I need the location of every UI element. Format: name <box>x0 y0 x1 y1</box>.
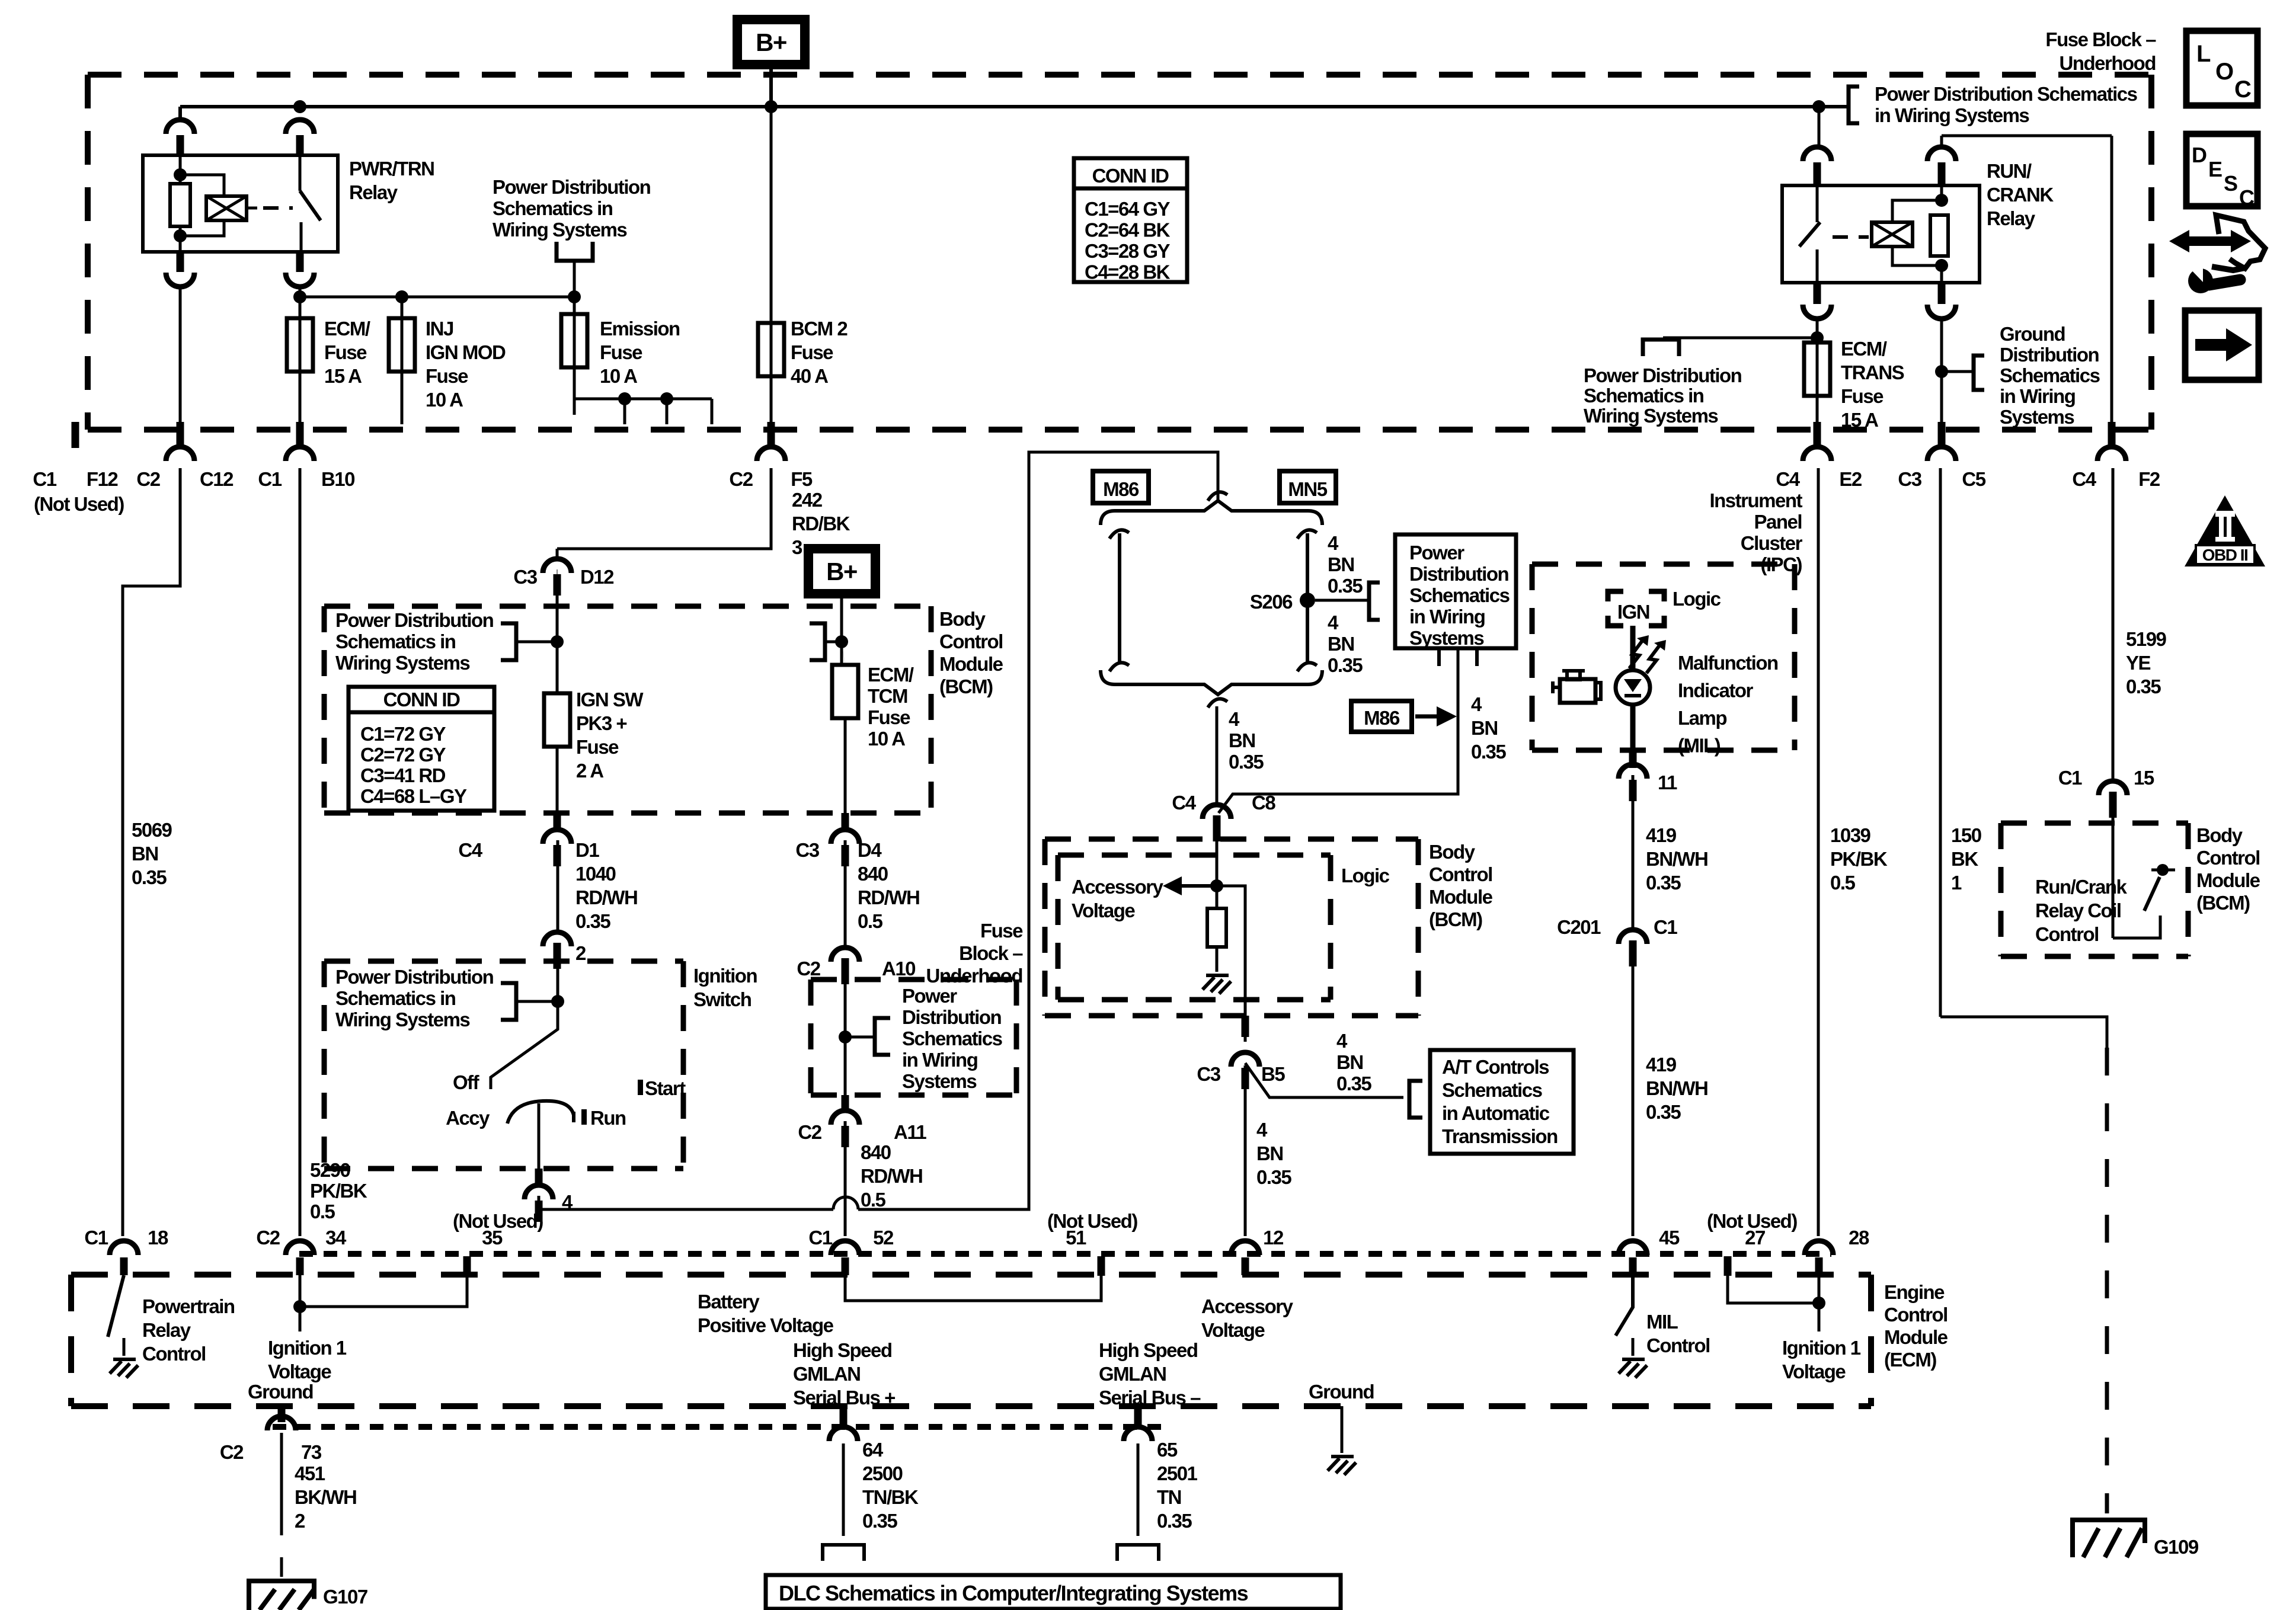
svg-text:C1: C1 <box>258 468 282 490</box>
svg-text:Power Distribution: Power Distribution <box>493 176 651 198</box>
svg-text:IGN MOD: IGN MOD <box>426 341 506 363</box>
svg-text:B+: B+ <box>826 558 857 585</box>
svg-text:Fuse: Fuse <box>576 736 619 758</box>
svg-text:Control: Control <box>939 630 1003 652</box>
svg-text:1040: 1040 <box>575 863 616 885</box>
svg-text:Relay: Relay <box>142 1319 191 1341</box>
svg-text:Relay Coil: Relay Coil <box>2035 900 2121 921</box>
svg-text:Underhood: Underhood <box>926 965 1022 987</box>
svg-text:2 A: 2 A <box>576 760 603 782</box>
svg-text:242: 242 <box>792 489 823 511</box>
svg-text:(MIL): (MIL) <box>1678 735 1721 757</box>
svg-text:Instrument: Instrument <box>1709 489 1802 511</box>
svg-text:S: S <box>2224 171 2237 196</box>
svg-text:M86: M86 <box>1103 478 1139 500</box>
svg-text:F2: F2 <box>2138 468 2160 490</box>
svg-text:Voltage: Voltage <box>1201 1319 1265 1341</box>
svg-text:Wiring Systems: Wiring Systems <box>1584 405 1718 427</box>
svg-text:Schematics: Schematics <box>902 1028 1002 1049</box>
svg-text:C4: C4 <box>2072 468 2096 490</box>
svg-text:4: 4 <box>1328 532 1339 554</box>
svg-text:0.35: 0.35 <box>1256 1166 1291 1188</box>
svg-text:(BCM): (BCM) <box>2196 892 2250 914</box>
svg-text:C2=64 BK: C2=64 BK <box>1085 219 1171 241</box>
svg-text:Block –: Block – <box>959 942 1023 964</box>
svg-text:Module: Module <box>2196 869 2260 891</box>
svg-text:C4: C4 <box>458 839 482 861</box>
svg-text:0.5: 0.5 <box>858 910 883 932</box>
svg-text:2: 2 <box>295 1510 305 1532</box>
svg-text:Panel: Panel <box>1754 511 1802 533</box>
svg-text:E2: E2 <box>1839 468 1862 490</box>
svg-text:Control: Control <box>2035 923 2099 945</box>
svg-text:2500: 2500 <box>862 1462 903 1484</box>
svg-text:15 A: 15 A <box>1841 409 1878 431</box>
svg-text:Control: Control <box>2196 847 2260 869</box>
svg-text:Body: Body <box>1429 841 1476 863</box>
svg-text:3: 3 <box>792 536 802 558</box>
svg-text:Run: Run <box>590 1107 626 1129</box>
svg-text:(Not Used): (Not Used) <box>34 493 124 515</box>
svg-text:Ground: Ground <box>248 1381 313 1403</box>
svg-text:4: 4 <box>1256 1119 1268 1141</box>
svg-text:Voltage: Voltage <box>1782 1361 1846 1382</box>
svg-text:BN/WH: BN/WH <box>1646 1077 1707 1099</box>
svg-text:C2: C2 <box>729 468 753 490</box>
svg-text:10 A: 10 A <box>600 365 637 387</box>
svg-text:C2: C2 <box>798 1121 821 1143</box>
svg-text:Battery: Battery <box>698 1291 760 1313</box>
svg-text:10 A: 10 A <box>868 728 905 750</box>
svg-text:Malfunction: Malfunction <box>1678 652 1778 674</box>
svg-text:Positive Voltage: Positive Voltage <box>698 1314 834 1336</box>
svg-text:Serial Bus –: Serial Bus – <box>1099 1387 1201 1409</box>
svg-text:Ground: Ground <box>2000 323 2065 345</box>
svg-text:Ignition 1: Ignition 1 <box>268 1337 347 1359</box>
svg-text:BN: BN <box>1328 633 1354 655</box>
svg-text:B5: B5 <box>1261 1063 1285 1085</box>
svg-text:M86: M86 <box>1364 707 1400 729</box>
svg-text:Schematics in: Schematics in <box>335 987 456 1009</box>
svg-text:C1: C1 <box>33 468 56 490</box>
svg-text:Ignition 1: Ignition 1 <box>1782 1337 1861 1359</box>
svg-text:Transmission: Transmission <box>1442 1125 1558 1147</box>
svg-text:(Not Used): (Not Used) <box>1047 1210 1137 1232</box>
svg-text:High Speed: High Speed <box>1099 1339 1198 1361</box>
svg-text:C1: C1 <box>1654 916 1677 938</box>
svg-text:Control: Control <box>1646 1334 1710 1356</box>
svg-text:CONN ID: CONN ID <box>383 689 461 710</box>
svg-text:2501: 2501 <box>1157 1462 1198 1484</box>
svg-text:Schematics in: Schematics in <box>493 197 613 219</box>
svg-text:Ignition: Ignition <box>693 965 757 987</box>
svg-text:in Wiring: in Wiring <box>2000 385 2075 407</box>
svg-text:Control: Control <box>1429 863 1492 885</box>
svg-text:Cluster: Cluster <box>1741 532 1803 554</box>
svg-text:0.35: 0.35 <box>132 866 167 888</box>
svg-text:0.35: 0.35 <box>1157 1510 1192 1532</box>
svg-text:Fuse: Fuse <box>426 365 468 387</box>
svg-text:0.35: 0.35 <box>1471 741 1506 763</box>
svg-text:Fuse: Fuse <box>1841 385 1884 407</box>
svg-text:BN: BN <box>1471 717 1498 739</box>
svg-text:0.35: 0.35 <box>1328 575 1363 597</box>
svg-text:0.35: 0.35 <box>1328 654 1363 676</box>
svg-text:4: 4 <box>1471 693 1482 715</box>
svg-text:5069: 5069 <box>132 819 172 841</box>
svg-text:C2: C2 <box>797 958 820 980</box>
svg-text:Logic: Logic <box>1341 865 1390 886</box>
svg-text:BN: BN <box>1256 1142 1283 1164</box>
svg-text:(BCM): (BCM) <box>939 676 993 697</box>
svg-text:Schematics in: Schematics in <box>1584 385 1704 406</box>
svg-text:F5: F5 <box>791 468 813 490</box>
svg-text:in Wiring Systems: in Wiring Systems <box>1875 104 2029 126</box>
svg-text:D: D <box>2192 143 2207 167</box>
svg-text:4: 4 <box>1336 1030 1348 1052</box>
svg-text:Fuse Block –: Fuse Block – <box>2045 28 2156 50</box>
svg-text:Relay: Relay <box>1987 207 2036 229</box>
svg-text:Body: Body <box>2196 824 2243 846</box>
svg-text:Logic: Logic <box>1673 588 1721 610</box>
svg-text:Control: Control <box>142 1343 206 1365</box>
svg-text:Powertrain: Powertrain <box>142 1295 235 1317</box>
svg-text:C4=68 L–GY: C4=68 L–GY <box>360 785 467 807</box>
svg-text:1039: 1039 <box>1830 824 1871 846</box>
svg-text:Wiring Systems: Wiring Systems <box>335 1009 469 1030</box>
svg-text:150: 150 <box>1951 824 1981 846</box>
svg-text:Module: Module <box>1884 1326 1948 1348</box>
svg-text:F12: F12 <box>87 468 119 490</box>
svg-text:12: 12 <box>1263 1227 1284 1249</box>
svg-text:73: 73 <box>301 1441 322 1463</box>
svg-text:Schematics: Schematics <box>1442 1079 1542 1101</box>
svg-text:C1: C1 <box>808 1227 832 1249</box>
svg-text:BN/WH: BN/WH <box>1646 848 1707 870</box>
svg-text:Schematics: Schematics <box>1409 584 1510 606</box>
svg-text:C1=64 GY: C1=64 GY <box>1085 198 1170 220</box>
svg-text:DLC Schematics in Computer/Int: DLC Schematics in Computer/Integrating S… <box>779 1581 1248 1605</box>
svg-text:B10: B10 <box>321 468 354 490</box>
svg-text:Module: Module <box>1429 886 1493 908</box>
svg-text:D12: D12 <box>580 566 614 588</box>
svg-text:C3: C3 <box>1197 1063 1220 1085</box>
svg-text:2: 2 <box>575 942 586 964</box>
svg-text:Indicator: Indicator <box>1678 680 1754 702</box>
svg-text:D4: D4 <box>858 839 882 861</box>
svg-text:C2=72 GY: C2=72 GY <box>360 744 446 766</box>
svg-text:C2: C2 <box>136 468 160 490</box>
svg-text:419: 419 <box>1646 824 1677 846</box>
svg-text:S206: S206 <box>1250 591 1293 613</box>
svg-text:Schematics: Schematics <box>2000 364 2100 386</box>
svg-text:64: 64 <box>862 1439 884 1461</box>
svg-text:65: 65 <box>1157 1439 1178 1461</box>
svg-text:High Speed: High Speed <box>793 1339 892 1361</box>
svg-text:BN: BN <box>1336 1051 1363 1073</box>
svg-text:PK3 +: PK3 + <box>576 712 626 734</box>
svg-text:Fuse: Fuse <box>980 920 1023 942</box>
svg-text:Fuse: Fuse <box>868 706 910 728</box>
svg-text:11: 11 <box>1658 772 1677 793</box>
svg-text:C1: C1 <box>2058 767 2082 789</box>
svg-text:A/T Controls: A/T Controls <box>1442 1056 1549 1078</box>
svg-text:TN/BK: TN/BK <box>862 1486 919 1508</box>
svg-text:O: O <box>2215 59 2233 85</box>
svg-text:34: 34 <box>325 1227 347 1249</box>
svg-text:C1=72 GY: C1=72 GY <box>360 723 446 745</box>
svg-text:Power Distribution: Power Distribution <box>1584 364 1742 386</box>
svg-text:BK/WH: BK/WH <box>295 1486 356 1508</box>
svg-text:IGN: IGN <box>1617 601 1649 623</box>
svg-text:Voltage: Voltage <box>268 1361 331 1382</box>
svg-text:PK/BK: PK/BK <box>310 1180 367 1202</box>
svg-text:E: E <box>2208 157 2222 181</box>
svg-text:45: 45 <box>1659 1227 1680 1249</box>
svg-text:Body: Body <box>939 608 986 630</box>
svg-text:GMLAN: GMLAN <box>793 1363 860 1385</box>
svg-text:BN: BN <box>132 843 158 865</box>
svg-text:Ground: Ground <box>1309 1381 1374 1403</box>
svg-text:RD/BK: RD/BK <box>792 513 850 534</box>
svg-text:Module: Module <box>939 653 1003 675</box>
svg-text:RD/WH: RD/WH <box>861 1165 922 1187</box>
svg-text:C: C <box>2239 185 2255 210</box>
svg-text:Control: Control <box>1884 1304 1948 1326</box>
svg-text:Wiring Systems: Wiring Systems <box>493 219 626 241</box>
svg-text:0.5: 0.5 <box>310 1201 335 1222</box>
svg-text:10 A: 10 A <box>426 389 463 411</box>
svg-text:0.5: 0.5 <box>861 1189 886 1211</box>
svg-text:CONN ID: CONN ID <box>1092 165 1169 187</box>
svg-text:in Wiring: in Wiring <box>1409 606 1485 628</box>
svg-text:C201: C201 <box>1557 916 1601 938</box>
svg-text:840: 840 <box>858 863 888 885</box>
svg-text:TN: TN <box>1157 1486 1181 1508</box>
svg-text:Power Distribution: Power Distribution <box>335 966 494 988</box>
svg-text:in Wiring: in Wiring <box>902 1049 977 1071</box>
svg-text:Power Distribution: Power Distribution <box>335 609 494 631</box>
svg-text:ECM/: ECM/ <box>1841 338 1887 360</box>
svg-text:C2: C2 <box>220 1441 244 1463</box>
svg-text:GMLAN: GMLAN <box>1099 1363 1166 1385</box>
svg-text:B+: B+ <box>756 28 786 56</box>
svg-text:BCM 2: BCM 2 <box>791 318 848 340</box>
svg-text:BN: BN <box>1229 729 1255 751</box>
svg-text:ECM/: ECM/ <box>324 318 370 340</box>
svg-text:4: 4 <box>1328 612 1339 633</box>
svg-text:C1: C1 <box>84 1227 108 1249</box>
svg-text:CRANK: CRANK <box>1987 184 2054 206</box>
svg-text:OBD II: OBD II <box>2202 546 2248 564</box>
svg-text:G107: G107 <box>323 1586 367 1608</box>
svg-text:C4: C4 <box>1776 468 1800 490</box>
svg-text:40 A: 40 A <box>791 365 828 387</box>
svg-text:ECM/: ECM/ <box>868 664 914 686</box>
svg-text:INJ: INJ <box>426 318 453 340</box>
svg-text:C8: C8 <box>1252 792 1275 814</box>
svg-text:0.35: 0.35 <box>1229 751 1264 773</box>
svg-text:MN5: MN5 <box>1288 478 1327 500</box>
svg-text:Fuse: Fuse <box>324 341 367 363</box>
svg-text:0.35: 0.35 <box>1336 1073 1371 1094</box>
svg-text:C3: C3 <box>795 839 819 861</box>
svg-text:Lamp: Lamp <box>1678 707 1726 729</box>
svg-text:Relay: Relay <box>349 181 398 203</box>
svg-text:(Not Used): (Not Used) <box>1707 1210 1797 1232</box>
svg-text:RD/WH: RD/WH <box>575 886 637 908</box>
svg-text:Distribution: Distribution <box>1409 563 1508 585</box>
svg-text:5199: 5199 <box>2126 628 2167 650</box>
svg-text:RD/WH: RD/WH <box>858 886 919 908</box>
svg-text:15 A: 15 A <box>324 365 362 387</box>
svg-text:4: 4 <box>1229 708 1240 730</box>
svg-text:Accy: Accy <box>446 1107 490 1129</box>
svg-text:C: C <box>2234 76 2251 103</box>
svg-text:C12: C12 <box>200 468 234 490</box>
svg-text:Underhood: Underhood <box>2060 52 2156 74</box>
svg-text:A10: A10 <box>882 958 915 980</box>
svg-text:Fuse: Fuse <box>791 341 833 363</box>
svg-text:(Not Used): (Not Used) <box>453 1210 543 1232</box>
svg-text:0.35: 0.35 <box>862 1510 897 1532</box>
svg-text:Engine: Engine <box>1884 1281 1945 1303</box>
svg-text:Wiring Systems: Wiring Systems <box>335 652 469 674</box>
svg-text:Systems: Systems <box>902 1070 976 1092</box>
svg-text:C3=41 RD: C3=41 RD <box>360 764 446 786</box>
svg-text:Start: Start <box>645 1077 686 1099</box>
svg-text:1: 1 <box>1951 872 1962 894</box>
svg-text:D1: D1 <box>575 839 599 861</box>
svg-text:BK: BK <box>1951 848 1978 870</box>
svg-text:C4: C4 <box>1172 792 1196 814</box>
svg-text:Accessory: Accessory <box>1072 876 1164 898</box>
svg-text:Off: Off <box>453 1071 480 1093</box>
svg-text:18: 18 <box>148 1227 168 1249</box>
svg-text:in Automatic: in Automatic <box>1442 1102 1550 1124</box>
svg-text:Power Distribution Schematics: Power Distribution Schematics <box>1875 83 2137 105</box>
svg-text:Schematics in: Schematics in <box>335 630 456 652</box>
svg-text:419: 419 <box>1646 1054 1677 1076</box>
svg-text:TCM: TCM <box>868 685 907 707</box>
svg-text:0.5: 0.5 <box>1830 872 1856 894</box>
svg-text:Systems: Systems <box>1409 627 1483 649</box>
svg-text:(ECM): (ECM) <box>1884 1349 1936 1371</box>
svg-text:Voltage: Voltage <box>1072 900 1135 921</box>
svg-text:Run/Crank: Run/Crank <box>2035 876 2128 898</box>
svg-text:BN: BN <box>1328 553 1354 575</box>
svg-text:840: 840 <box>861 1141 891 1163</box>
svg-text:C3=28 GY: C3=28 GY <box>1085 240 1170 262</box>
svg-text:Power: Power <box>902 985 957 1007</box>
svg-text:C3: C3 <box>1898 468 1921 490</box>
svg-text:L: L <box>2196 41 2211 67</box>
svg-text:C5: C5 <box>1962 468 1985 490</box>
svg-text:C2: C2 <box>256 1227 280 1249</box>
svg-text:YE: YE <box>2126 652 2151 674</box>
svg-text:C3: C3 <box>513 566 537 588</box>
svg-text:(IPC): (IPC) <box>1761 553 1802 575</box>
svg-text:Accessory: Accessory <box>1201 1295 1294 1317</box>
svg-text:0.35: 0.35 <box>575 910 610 932</box>
svg-text:Switch: Switch <box>693 988 752 1010</box>
svg-text:TRANS: TRANS <box>1841 361 1904 383</box>
svg-text:PK/BK: PK/BK <box>1830 848 1888 870</box>
svg-text:MIL: MIL <box>1646 1311 1678 1333</box>
svg-text:Distribution: Distribution <box>2000 344 2099 366</box>
svg-text:C4=28 BK: C4=28 BK <box>1085 261 1171 283</box>
svg-text:(BCM): (BCM) <box>1429 908 1482 930</box>
svg-text:Systems: Systems <box>2000 406 2074 428</box>
svg-text:Fuse: Fuse <box>600 341 642 363</box>
svg-text:52: 52 <box>873 1227 894 1249</box>
svg-text:PWR/TRN: PWR/TRN <box>349 158 434 180</box>
svg-text:28: 28 <box>1849 1227 1869 1249</box>
svg-text:G109: G109 <box>2154 1536 2199 1558</box>
svg-text:15: 15 <box>2134 767 2154 789</box>
svg-text:0.35: 0.35 <box>1646 872 1681 894</box>
svg-text:A11: A11 <box>894 1121 926 1143</box>
svg-text:Emission: Emission <box>600 318 680 340</box>
svg-text:Distribution: Distribution <box>902 1006 1001 1028</box>
svg-text:0.35: 0.35 <box>1646 1101 1681 1123</box>
svg-text:451: 451 <box>295 1462 325 1484</box>
svg-text:RUN/: RUN/ <box>1987 160 2032 182</box>
svg-text:IGN SW: IGN SW <box>576 689 644 710</box>
svg-text:Serial Bus +: Serial Bus + <box>793 1387 895 1409</box>
svg-text:Power: Power <box>1409 542 1464 564</box>
svg-text:0.35: 0.35 <box>2126 676 2161 697</box>
